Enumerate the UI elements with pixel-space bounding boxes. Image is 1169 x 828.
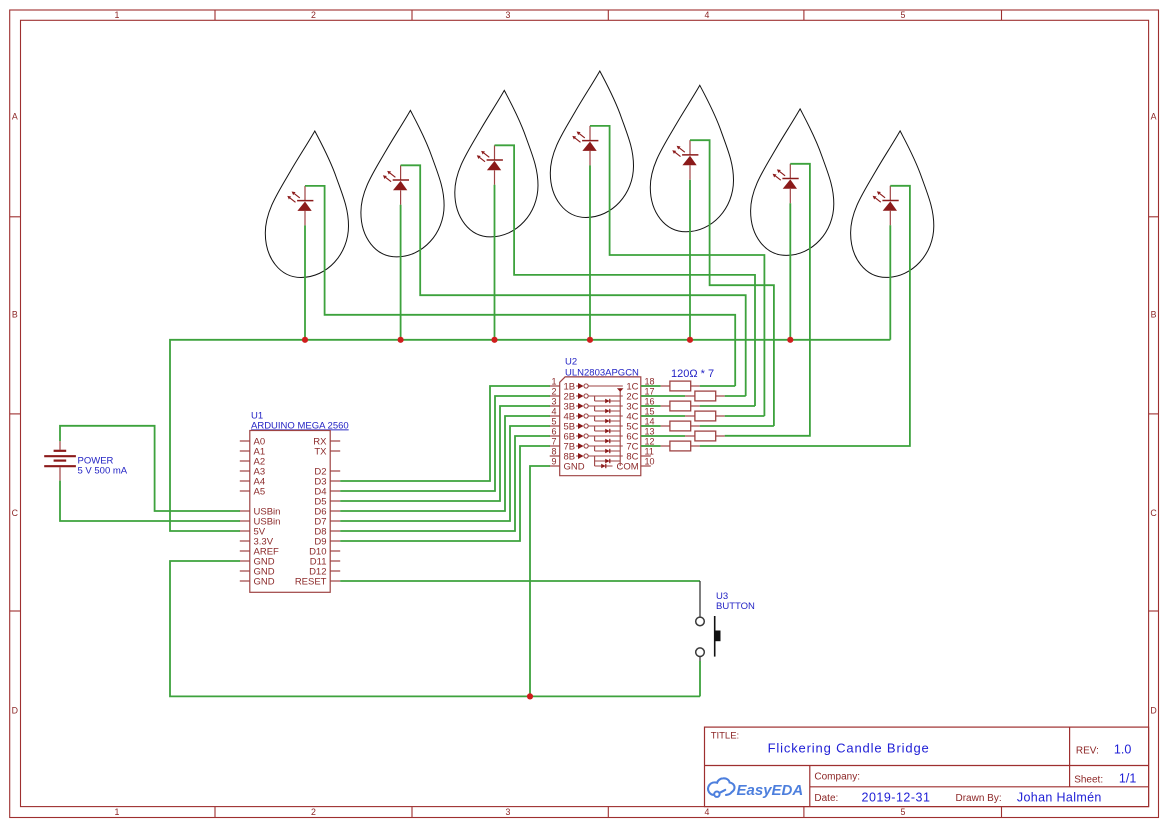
wire: LED6 anode down to 5V bus: [789, 203, 791, 339]
svg-text:B: B: [12, 309, 18, 319]
svg-text:Flickering Candle Bridge: Flickering Candle Bridge: [768, 741, 930, 756]
wire: LED4 anode down to 5V bus: [589, 165, 591, 339]
candle flame 4 outline: [550, 71, 633, 218]
wire: U1 RESET to button U3: [340, 580, 700, 582]
candle flame 6 outline: [751, 109, 834, 256]
svg-text:GND: GND: [254, 576, 275, 587]
resistor R5 120Ω: [661, 421, 700, 431]
svg-text:5 V 500 mA: 5 V 500 mA: [78, 466, 128, 477]
svg-text:4: 4: [705, 807, 710, 817]
wire: LED3 cathode to resistor R3: [495, 145, 756, 406]
LED5 (light emitting diode, candle 5): [672, 140, 698, 180]
wire: U1 D9 to U2 pin 7: [340, 446, 550, 541]
wire: LED2 anode down to 5V bus: [400, 205, 402, 340]
svg-text:U2: U2: [565, 357, 577, 368]
svg-text:8: 8: [551, 447, 556, 457]
svg-text:1: 1: [115, 10, 120, 20]
resistor array label 120Ω * 7: [671, 368, 714, 380]
svg-text:RESET: RESET: [295, 576, 327, 587]
svg-text:GND: GND: [564, 461, 585, 472]
svg-text:2019-12-31: 2019-12-31: [862, 790, 931, 804]
wire: U2 pin 13 to resistor R6: [641, 435, 685, 437]
wire: LED7 cathode down to resistor R7 row: [700, 186, 910, 446]
wire: battery + to U1 USBin: [60, 426, 240, 511]
svg-text:3: 3: [506, 10, 511, 20]
resistor R2 120Ω: [685, 391, 725, 401]
wire: U2 pin 18 to resistor R1: [641, 385, 661, 387]
svg-text:Johan Halmén: Johan Halmén: [1017, 790, 1102, 804]
LED1 (light emitting diode, candle 1): [287, 186, 313, 226]
svg-text:B: B: [1151, 309, 1157, 319]
wire: U2 pin 17 to resistor R2: [641, 395, 685, 397]
svg-text:Drawn By:: Drawn By:: [956, 793, 1002, 804]
svg-text:120Ω * 7: 120Ω * 7: [671, 368, 714, 380]
junction on 5V bus at LED4: [587, 337, 593, 343]
wire: LED7 anode down to 5V bus: [889, 225, 891, 339]
wire: U1 GND to ground bus: [170, 561, 700, 696]
svg-text:5: 5: [551, 417, 556, 427]
wire: U2 pin 12 to resistor R7: [641, 445, 661, 447]
junction on 5V bus at LED5: [687, 337, 693, 343]
svg-text:1/1: 1/1: [1119, 772, 1136, 786]
IC U1 ARDUINO MEGA 2560: [240, 411, 349, 593]
svg-text:1.0: 1.0: [1114, 743, 1131, 757]
wire: LED5 cathode to resistor R5: [690, 140, 774, 426]
wire: U1 D4 to U2 pin 2: [340, 396, 550, 491]
wire: LED3 anode down to 5V bus: [494, 185, 496, 340]
svg-text:A: A: [12, 111, 18, 121]
resistor R4 120Ω: [685, 411, 725, 421]
wire: resistor R3 to LED3 vertical: [700, 405, 755, 407]
svg-text:TITLE:: TITLE:: [711, 730, 740, 741]
svg-text:2: 2: [311, 10, 316, 20]
LED7 (light emitting diode, candle 7): [873, 186, 899, 226]
svg-text:Date:: Date:: [814, 793, 838, 804]
resistor R1 120Ω: [661, 381, 700, 391]
svg-text:4: 4: [551, 407, 556, 417]
candle flame 5 outline: [650, 85, 733, 232]
wire: U1 D5 to U2 pin 3: [340, 406, 550, 501]
wire: LED1 cathode to resistor R1: [305, 186, 735, 386]
wire: resistor R4 to LED4 vertical: [725, 415, 765, 417]
svg-text:EasyEDA: EasyEDA: [737, 782, 804, 799]
svg-text:3: 3: [551, 397, 556, 407]
candle flame 2 outline: [361, 110, 444, 257]
svg-text:5: 5: [901, 10, 906, 20]
svg-text:C: C: [12, 508, 19, 518]
LED3 (light emitting diode, candle 3): [477, 145, 503, 185]
svg-text:5: 5: [901, 807, 906, 817]
wire: U2 pin 16 to resistor R3: [641, 405, 661, 407]
svg-text:3: 3: [506, 807, 511, 817]
svg-text:7: 7: [551, 437, 556, 447]
resistor R6 120Ω: [685, 431, 725, 441]
junction on 5V bus at LED2: [398, 337, 404, 343]
resistor R3 120Ω: [661, 401, 700, 411]
svg-text:ARDUINO MEGA 2560: ARDUINO MEGA 2560: [251, 420, 349, 431]
svg-text:1: 1: [115, 807, 120, 817]
candle flame 3 outline: [455, 90, 538, 237]
wire: resistor R1 to LED1 vertical: [700, 385, 736, 387]
wire: 5V bus from U1 5V pin up and across LED anodes: [170, 340, 890, 531]
svg-text:Sheet:: Sheet:: [1074, 775, 1103, 786]
svg-text:1: 1: [551, 377, 556, 387]
wire: LED6 cathode down to resistor R6 row: [725, 164, 810, 436]
junction on 5V bus at LED6: [787, 337, 793, 343]
svg-text:11: 11: [645, 447, 654, 457]
wire: button to ground bus: [699, 661, 701, 696]
wire: LED5 anode down to 5V bus: [689, 180, 691, 340]
candle flame 1 outline: [265, 131, 348, 278]
wire: U2 pin 15 to resistor R4: [641, 415, 685, 417]
junction on 5V bus at LED3: [491, 337, 497, 343]
junction on ground bus: [527, 693, 533, 699]
wire: LED4 cathode to resistor R4: [590, 126, 764, 416]
wire: resistor R5 to LED5 vertical: [700, 425, 774, 427]
candle flame 7 outline: [851, 131, 934, 278]
LED2 (light emitting diode, candle 2): [383, 165, 409, 205]
svg-text:2: 2: [551, 387, 556, 397]
wire: battery - to U1 USBin: [60, 481, 240, 521]
svg-text:D: D: [1150, 705, 1156, 715]
wire: LED1 anode down to 5V bus: [304, 225, 306, 339]
svg-text:2: 2: [311, 807, 316, 817]
LED4 (light emitting diode, candle 4): [572, 126, 598, 165]
wire: resistor R2 to LED2 vertical: [725, 395, 746, 397]
pushbutton U3 BUTTON: [696, 581, 755, 661]
svg-text:C: C: [1150, 508, 1157, 518]
wire: U2 pin 14 to resistor R5: [641, 425, 661, 427]
svg-text:D: D: [12, 705, 18, 715]
svg-text:10: 10: [645, 457, 655, 467]
wire: LED2 cathode to resistor R2: [401, 165, 746, 396]
IC U2 ULN2803APGCN: [550, 357, 655, 476]
svg-text:4: 4: [705, 10, 710, 20]
junction on 5V bus at LED1: [302, 337, 308, 343]
svg-text:6: 6: [551, 427, 556, 437]
resistor R7 120Ω: [661, 441, 700, 451]
LED6 (light emitting diode, candle 6): [773, 164, 799, 204]
svg-text:REV:: REV:: [1076, 746, 1099, 757]
svg-text:9: 9: [551, 457, 556, 467]
wire: U1 D7 to U2 pin 5: [340, 426, 550, 521]
svg-text:BUTTON: BUTTON: [716, 601, 755, 612]
svg-text:A: A: [1151, 111, 1157, 121]
svg-text:TX: TX: [314, 446, 327, 457]
wire: U1 D3 to U2 pin 1: [340, 386, 550, 481]
title block: [705, 727, 1149, 807]
EasyEDA logo: [708, 778, 803, 799]
svg-text:Company:: Company:: [814, 772, 860, 783]
battery POWER 5V 500mA: [44, 441, 128, 481]
wire: U2 GND down to ground bus: [530, 466, 550, 696]
wire: U1 D8 to U2 pin 6: [340, 436, 550, 531]
wire: U1 D6 to U2 pin 4: [340, 416, 550, 511]
svg-text:A5: A5: [254, 486, 266, 497]
